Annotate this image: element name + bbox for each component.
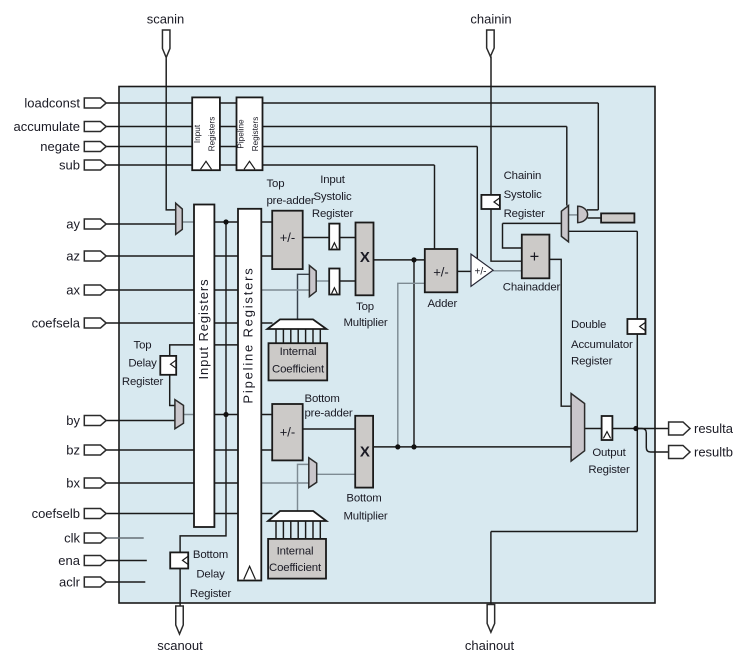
svg-text:Pipeline: Pipeline — [237, 119, 246, 149]
svg-text:loadconst: loadconst — [24, 96, 80, 111]
svg-text:ax: ax — [66, 283, 80, 298]
svg-text:sub: sub — [59, 158, 80, 173]
svg-text:ay: ay — [66, 217, 80, 232]
svg-text:+: + — [530, 248, 540, 266]
svg-text:Bottom: Bottom — [305, 393, 340, 405]
svg-text:Top: Top — [356, 301, 374, 313]
svg-text:Coefficient: Coefficient — [272, 364, 325, 376]
svg-text:Accumulator: Accumulator — [571, 339, 633, 351]
svg-text:bz: bz — [66, 443, 80, 458]
svg-text:Bottom: Bottom — [193, 549, 228, 561]
svg-text:Register: Register — [588, 464, 630, 476]
svg-text:Multiplier: Multiplier — [343, 317, 387, 329]
svg-text:az: az — [66, 249, 80, 264]
svg-text:Chainadder: Chainadder — [503, 282, 561, 294]
svg-text:Adder: Adder — [427, 298, 457, 310]
svg-text:accumulate: accumulate — [14, 119, 80, 134]
svg-text:Register: Register — [312, 208, 354, 220]
svg-text:Delay: Delay — [128, 358, 157, 370]
svg-text:by: by — [66, 413, 80, 428]
svg-text:clk: clk — [64, 531, 80, 546]
svg-text:Input: Input — [320, 174, 346, 186]
svg-text:Input Registers: Input Registers — [196, 279, 211, 380]
svg-text:+/-: +/- — [433, 265, 449, 280]
svg-text:chainin: chainin — [470, 12, 511, 27]
svg-text:Internal: Internal — [277, 546, 314, 558]
svg-text:Systolic: Systolic — [313, 191, 351, 203]
svg-text:chainout: chainout — [465, 638, 515, 653]
svg-text:Delay: Delay — [196, 569, 225, 581]
svg-text:coefsela: coefsela — [32, 316, 81, 331]
svg-text:aclr: aclr — [59, 575, 81, 590]
svg-text:coefselb: coefselb — [32, 506, 80, 521]
svg-text:Coefficient: Coefficient — [269, 562, 322, 574]
svg-text:scanout: scanout — [157, 638, 203, 653]
svg-text:Bottom: Bottom — [346, 493, 381, 505]
svg-text:+/-: +/- — [280, 230, 296, 245]
svg-text:+/-: +/- — [280, 425, 296, 440]
svg-text:Registers: Registers — [251, 117, 260, 152]
svg-text:resulta: resulta — [694, 421, 734, 436]
svg-text:Systolic: Systolic — [504, 189, 542, 201]
svg-text:Register: Register — [122, 376, 164, 388]
svg-text:Registers: Registers — [207, 117, 216, 152]
svg-text:Register: Register — [571, 356, 613, 368]
svg-text:Double: Double — [571, 319, 606, 331]
svg-text:resultb: resultb — [694, 445, 733, 460]
svg-text:pre-adder: pre-adder — [267, 195, 315, 207]
svg-text:Top: Top — [134, 340, 152, 352]
svg-text:X: X — [360, 249, 370, 266]
svg-text:bx: bx — [66, 476, 80, 491]
svg-text:Top: Top — [267, 178, 285, 190]
svg-text:ena: ena — [58, 553, 80, 568]
svg-text:pre-adder: pre-adder — [305, 408, 353, 420]
svg-text:Register: Register — [190, 588, 232, 600]
svg-text:Input: Input — [193, 124, 202, 143]
svg-text:scanin: scanin — [147, 12, 185, 27]
svg-text:Output: Output — [592, 447, 626, 459]
svg-text:Multiplier: Multiplier — [343, 511, 387, 523]
svg-text:+/-: +/- — [475, 267, 487, 278]
svg-text:Chainin: Chainin — [504, 170, 542, 182]
svg-text:negate: negate — [40, 139, 80, 154]
svg-text:Internal: Internal — [280, 346, 317, 358]
svg-text:Register: Register — [504, 208, 546, 220]
svg-text:X: X — [360, 443, 370, 460]
svg-text:Pipeline Registers: Pipeline Registers — [240, 266, 255, 403]
